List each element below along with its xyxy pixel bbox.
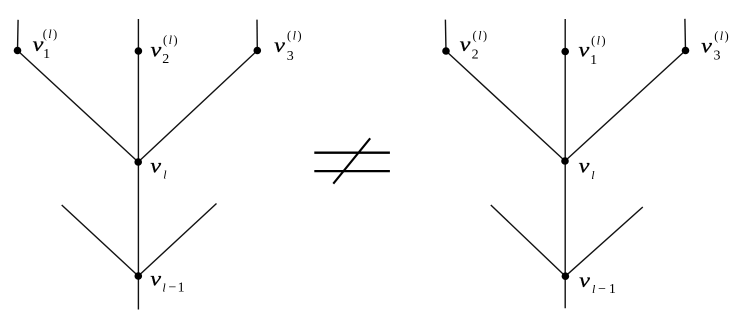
wire: left tree stub above node v1 xyxy=(17,20,20,51)
wire: right tree stub above node v2 xyxy=(444,20,447,51)
svg-text:v: v xyxy=(151,38,163,62)
svg-text:(l): (l) xyxy=(287,29,303,43)
svg-text:l: l xyxy=(591,168,595,182)
node v3 (left tree) xyxy=(253,47,261,55)
svg-text:v: v xyxy=(150,267,162,291)
wire: left tree V right segment into vl-1 xyxy=(138,204,216,277)
label vl (left tree) xyxy=(150,154,167,182)
label vl-1 (left tree) xyxy=(150,267,184,296)
svg-text:(l): (l) xyxy=(473,29,489,43)
svg-text:v: v xyxy=(701,34,713,58)
svg-text:1: 1 xyxy=(590,53,597,68)
wire: left tree vertical trunk xyxy=(137,19,139,310)
wire: right tree stub above node v3 xyxy=(684,19,687,51)
svg-text:v: v xyxy=(579,268,591,292)
not-equal sign: bottom bar xyxy=(314,170,390,172)
svg-text:v: v xyxy=(579,38,591,62)
svg-text:l − 1: l − 1 xyxy=(592,282,616,297)
node v2 (left tree) xyxy=(135,47,143,55)
node v1 (left tree) xyxy=(14,47,22,55)
svg-text:v: v xyxy=(274,33,286,57)
node vl-1 (left tree) xyxy=(135,272,143,280)
svg-text:(l): (l) xyxy=(43,27,59,41)
label v1^(l) (left tree) xyxy=(33,27,59,62)
label v1^(l) (right tree) xyxy=(579,34,608,68)
label vl (right tree) xyxy=(579,154,596,182)
svg-text:l − 1: l − 1 xyxy=(162,281,184,296)
svg-text:(l): (l) xyxy=(714,29,730,43)
node vl (right tree) xyxy=(561,157,569,165)
svg-text:v: v xyxy=(579,154,591,178)
svg-text:3: 3 xyxy=(714,48,721,63)
svg-text:v: v xyxy=(150,154,162,178)
svg-text:3: 3 xyxy=(287,49,294,64)
node vl-1 (right tree) xyxy=(562,272,570,280)
node v3 (right tree) xyxy=(682,47,690,55)
wire: left tree V left segment into vl-1 xyxy=(62,205,139,276)
svg-text:2: 2 xyxy=(162,52,169,67)
svg-text:(l): (l) xyxy=(591,34,607,48)
wire: left tree edge v3 to vl xyxy=(138,51,257,163)
wire: right tree vertical trunk xyxy=(564,19,566,308)
label v3^(l) (left tree) xyxy=(274,29,303,64)
svg-text:v: v xyxy=(460,32,472,56)
wire: left tree stub above node v3 xyxy=(256,20,258,51)
wire: right tree V right segment into vl-1 xyxy=(565,207,642,276)
not-equal sign: slash xyxy=(333,138,370,183)
wire: right tree edge v3 to vl xyxy=(565,51,686,162)
label v2^(l) (left tree) xyxy=(151,33,180,67)
node v1 (right tree) xyxy=(561,48,569,56)
svg-text:(l): (l) xyxy=(163,33,179,47)
svg-text:l: l xyxy=(163,168,167,182)
node vl (left tree) xyxy=(134,158,142,166)
not-equal sign: top bar xyxy=(314,152,390,154)
svg-text:1: 1 xyxy=(43,47,50,62)
label v2^(l) (right tree) xyxy=(460,29,489,63)
node v2 (right tree) xyxy=(442,47,450,55)
wire: right tree edge v2 to vl xyxy=(446,51,565,161)
label vl-1 (right tree) xyxy=(579,268,616,297)
wire: right tree V left segment into vl-1 xyxy=(491,205,566,276)
svg-text:2: 2 xyxy=(472,48,479,63)
label v3^(l) (right tree) xyxy=(701,29,730,63)
wire: left tree edge v1 to vl xyxy=(18,51,139,163)
